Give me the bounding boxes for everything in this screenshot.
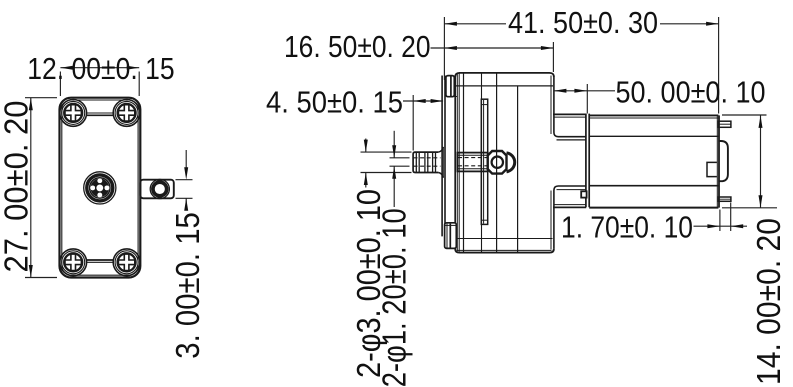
dimension 27.00 line with arrows bbox=[30, 98, 32, 278]
dimension 3.00 extension lines bbox=[176, 179, 193, 181]
svg-text:4. 50±0. 15: 4. 50±0. 15 bbox=[266, 84, 403, 119]
svg-text:12. 00±0. 15: 12. 00±0. 15 bbox=[27, 51, 174, 86]
pump body vertical seam c bbox=[517, 86, 519, 252]
extension line pump right face bbox=[552, 42, 554, 72]
pump front cover outer outline bbox=[60, 98, 141, 278]
pump body top seam bbox=[456, 85, 554, 87]
svg-text:50. 00±0. 10: 50. 00±0. 10 bbox=[616, 75, 766, 110]
dimension 12.00 line with arrows bbox=[60, 67, 139, 69]
dimension 4.50 line with arrows bbox=[403, 100, 443, 102]
hidden barbed port inside body bbox=[457, 153, 487, 172]
side terminal tab with eyelet bbox=[140, 180, 174, 199]
dimension phi3.00 arrows bbox=[365, 139, 367, 153]
svg-text:41. 50±0. 30: 41. 50±0. 30 bbox=[508, 5, 658, 40]
nozzle barb ridges bbox=[415, 152, 417, 172]
pump body long slot bbox=[481, 99, 487, 224]
extension line pump left face bbox=[443, 17, 445, 80]
center port concentric rings bbox=[84, 172, 116, 204]
rear neck bottom edge double bbox=[554, 204, 586, 206]
dimension 3.00 arrows bbox=[185, 150, 187, 168]
port mounting block with bore circle bbox=[488, 151, 507, 174]
extension lines terminal protrusion bbox=[719, 210, 721, 232]
svg-text:27. 00±0. 20: 27. 00±0. 20 bbox=[0, 101, 34, 273]
extension line nozzle tip bbox=[412, 95, 414, 151]
pump body vertical seam a bbox=[463, 73, 465, 252]
motor terminal bottom bbox=[718, 197, 731, 201]
extension line mounting plate bbox=[586, 84, 588, 114]
dimension phi1.20 arrows bbox=[393, 131, 395, 158]
port block dome cap bbox=[507, 153, 515, 172]
top scallop bridge between screw bosses bbox=[87, 112, 114, 114]
pump body bottom edge bbox=[455, 249, 554, 253]
svg-text:3. 00±0. 15: 3. 00±0. 15 bbox=[169, 212, 206, 359]
screw boss bottom-right bbox=[113, 249, 140, 276]
pump right edge upper segment bbox=[550, 76, 552, 135]
nozzle hidden bore lines bbox=[414, 157, 441, 159]
pump body inner bottom lines bbox=[457, 238, 553, 240]
svg-text:1. 70±0. 10: 1. 70±0. 10 bbox=[561, 210, 693, 245]
nozzle root fillets bbox=[438, 147, 443, 152]
extension lines nozzle bore diameter bbox=[390, 157, 410, 159]
motor terminal top bbox=[718, 121, 731, 127]
motor end cap bulge bbox=[718, 141, 728, 181]
motor end cap notch bbox=[707, 162, 717, 176]
dimension 50.00 line with arrows bbox=[554, 90, 615, 92]
pump front cover inner offset line bbox=[62, 100, 138, 275]
screw boss top-left bbox=[60, 100, 87, 127]
svg-text:14. 00±0. 20: 14. 00±0. 20 bbox=[750, 218, 787, 385]
motor body outline bbox=[589, 114, 718, 116]
screw boss top-right bbox=[113, 100, 140, 127]
left nozzle barb outline bbox=[413, 152, 438, 172]
top mounting tab side profile bbox=[446, 76, 454, 97]
front flange plate double line bbox=[441, 76, 443, 237]
small nub on mounting plate bbox=[581, 191, 586, 197]
pump body vertical seam b bbox=[496, 73, 498, 252]
bottom scallop bridge between screw bosses bbox=[87, 261, 114, 263]
motor mounting plate double line bbox=[585, 114, 587, 208]
extension lines motor height bbox=[722, 114, 767, 116]
dimension 12.00 extension lines bbox=[59, 72, 61, 97]
dimension 41.50 line with arrows bbox=[444, 23, 506, 25]
pump body left edge double line bbox=[454, 77, 456, 249]
rear neck top edge double bbox=[553, 113, 586, 115]
dimension 27.00 extension lines bbox=[25, 97, 57, 99]
dimension 14.00 line with arrows bbox=[760, 115, 762, 207]
bottom mounting tab side profile bbox=[445, 223, 457, 249]
pump right edge lower segment bbox=[550, 191, 552, 250]
dimension 1.70 line with arrows bbox=[694, 225, 748, 227]
screw boss bottom-left bbox=[60, 249, 87, 276]
dimension 16.50 line with arrows bbox=[431, 47, 554, 49]
motor can crimp seam upper bbox=[589, 135, 718, 137]
motor can crimp seam lower bbox=[589, 185, 718, 187]
extension lines nozzle outer diameter bbox=[361, 151, 412, 153]
pump body top edge bbox=[455, 73, 554, 77]
extension line motor right end bbox=[718, 17, 720, 114]
svg-text:16. 50±0. 20: 16. 50±0. 20 bbox=[284, 29, 431, 64]
svg-text:2-φ1. 20±0. 10: 2-φ1. 20±0. 10 bbox=[376, 208, 413, 387]
